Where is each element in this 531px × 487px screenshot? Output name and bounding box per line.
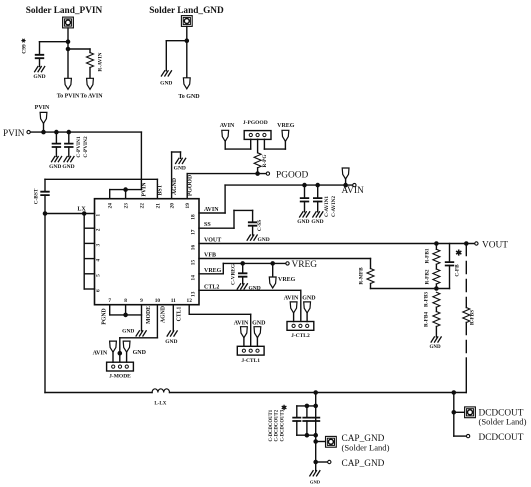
junction C-VREG [241,262,244,265]
junction CAP_GND terminal [314,460,317,463]
terminal circle PVIN [27,130,30,133]
connector J-CTL1 [237,346,264,355]
capacitor C-SS [249,222,257,225]
svg-text:AGND: AGND [172,178,178,195]
wire VREG arrow stub [272,263,274,277]
wire C-PVIN1 top [55,132,57,144]
capacitor C-AVIN1 [301,198,309,201]
wire PGND bus [110,314,142,316]
svg-text:PVIN: PVIN [3,128,25,138]
svg-text:C99 ✱: C99 ✱ [21,38,28,54]
svg-text:C-SS: C-SS [257,220,263,232]
svg-text:GND: GND [311,219,323,225]
svg-text:AGND: AGND [161,306,167,323]
junction PVIN arrow/rail [42,131,45,134]
port arrow AVIN J-MODE [110,341,117,352]
svg-text:AVIN: AVIN [234,320,249,326]
pin 15 wire VFB line [199,258,371,260]
capacitor C-DCDCOUT2 [303,418,310,421]
ground C-AVIN1 [300,212,310,217]
wire C-PVIN1 bottom [55,147,57,157]
ground solder-land-GND [161,71,171,76]
svg-text:GND: GND [133,350,147,356]
wire R-FBS top dashed [465,244,467,308]
svg-text:PGOOD: PGOOD [276,170,309,180]
wire GND arrow to J-CTL2 [306,313,308,322]
resistor R-FB2 [433,269,440,284]
wire C-PVIN2 top [68,132,70,144]
svg-text:VOUT: VOUT [204,238,221,244]
svg-text:R-FB3: R-FB3 [424,292,430,307]
svg-text:3: 3 [96,243,102,246]
pin 19 stub PGOOD up [186,174,188,199]
resistor R-AVIN [87,53,94,68]
capacitor C-PVIN2 [65,144,73,147]
port arrow GND J-CTL1 [254,327,261,338]
connector J-MODE [107,362,134,371]
ground C-SS [247,235,257,240]
wire AVIN riser [224,185,226,213]
svg-text:R-FB4: R-FB4 [424,312,430,327]
pin 11 wire AGND down [172,305,174,331]
wire R-PG bottom [257,168,259,174]
wire to CAP_GND land [316,441,326,443]
svg-text:10: 10 [155,298,161,304]
svg-text:PVIN: PVIN [35,105,50,111]
svg-text:9: 9 [140,298,143,304]
port arrow To AVIN [87,78,94,89]
port arrow AVIN J-CTL1 [241,327,248,338]
svg-text:18: 18 [190,214,196,220]
capacitor C-FB [446,262,454,265]
ground C-PVIN2 [64,157,74,162]
svg-text:DCDCOUT: DCDCOUT [479,433,524,443]
pin 16 wire VOUT line [199,243,475,245]
svg-text:R-FBS: R-FBS [470,310,476,325]
junction cap top bus 3 [314,404,317,407]
wire left pin bus [83,214,85,290]
pin 10 wire MODE down [156,305,158,338]
svg-text:GND: GND [302,295,316,301]
svg-text:R-PG: R-PG [262,155,268,168]
pin 4 stub [84,258,94,260]
solder land CAP_GND symbol [326,436,337,447]
wire AGND to ground [180,152,182,158]
wire VREG line [223,262,285,264]
svg-text:To PVIN: To PVIN [57,93,80,99]
ground R-FB4 [431,337,441,342]
svg-text:CTL1: CTL1 [177,306,183,321]
svg-text:VREG: VREG [292,260,318,270]
junction C-AVIN2 [316,184,319,187]
port arrow VREG J-PGOOD [282,130,289,141]
wire C-DCDCOUT2 top [306,406,308,418]
svg-text:J-CTL1: J-CTL1 [241,358,260,364]
svg-text:14: 14 [190,275,196,281]
terminal circle CAP_GND [328,460,331,463]
wire GND branch down [165,41,167,71]
svg-text:GND: GND [165,339,177,345]
connector J-PGOOD [244,131,271,140]
wire R-FBS to rail [465,358,467,393]
svg-text:BST: BST [158,184,164,195]
wire R-FB1 top [435,244,437,250]
svg-text:To AVIN: To AVIN [80,93,103,99]
junction output caps [314,391,317,394]
wire C99 bottom [39,58,41,66]
junction R-PG/PGOOD [256,172,259,175]
terminal circle DCDCOUT [466,434,469,437]
wire CTL2 to J-CTL2 [300,290,302,321]
pin 6 stub [84,288,94,290]
pin 21 stub BST [156,179,158,198]
capacitor C-VREG [239,273,247,276]
wire VFB to R-MFB [370,259,372,269]
svg-text:8: 8 [124,298,127,304]
svg-text:GND: GND [252,320,266,326]
terminal circle PGOOD [266,172,269,175]
svg-text:2: 2 [96,228,102,231]
wire CTL1 to J-CTL1 [250,314,252,346]
wire VREG riser [222,263,224,273]
wire C-PVIN2 bottom [68,147,70,157]
svg-text:11: 11 [171,298,176,304]
wire to DCDCOUT land [454,411,465,413]
svg-text:L-LX: L-LX [154,402,166,407]
terminal circle AVIN [353,183,356,186]
wire output cap main down [315,393,317,471]
resistor R-MFB [367,269,374,284]
wire CTL1 horizontal [189,313,251,315]
wire AVIN arrow down [224,141,226,149]
wire C-AVIN2 bottom [317,202,319,212]
svg-text:GND: GND [174,165,186,171]
pin 14 wire VREG [199,273,223,275]
wire FB node [371,288,450,290]
wire AVIN arrow to J-CTL1 [243,338,245,347]
wire to R-AVIN [68,48,90,50]
svg-text:C-DCDCOUT1: C-DCDCOUT1 [269,409,274,441]
junction C-PVIN2 [67,131,70,134]
wire pin3 up [263,139,265,149]
wire C-AVIN2 top [317,185,319,198]
wire LX down to inductor rail [44,214,46,393]
svg-text:R-MFB: R-MFB [358,267,364,285]
svg-text:AVIN: AVIN [93,351,108,357]
wire C-VREG top [242,263,244,273]
connector J-CTL2 [287,322,314,331]
capacitor C-BST [41,192,49,195]
resistor R-PG [254,153,261,168]
wire C-DCDCOUT2 bottom [306,421,308,435]
wire C-DCDCOUT1 bottom [296,421,298,435]
op-amp U1 IC body [95,199,200,305]
svg-text:GND: GND [429,345,441,350]
pin 9 wire to ground [141,305,143,331]
pin 5 stub [84,273,94,275]
svg-text:C-PVIN1: C-PVIN1 [76,136,82,158]
junction R-FBS/VOUT [465,242,468,245]
svg-text:R-FB1: R-FB1 [425,248,431,263]
wire DCDCOUT down [453,393,455,437]
svg-text:CAP_GND: CAP_GND [342,459,385,469]
ground C99 [35,67,45,72]
svg-text:24: 24 [108,203,114,209]
capacitor C-AVIN2 [314,198,322,201]
wire AVIN to pin1 [225,148,251,150]
wire C-BST top [44,179,46,191]
wire pin1 up [250,139,252,149]
port arrow AVIN input [342,168,349,179]
junction solder-GND [185,39,188,42]
junction LX bus [83,212,86,215]
svg-text:6: 6 [96,289,102,292]
svg-text:C-DCDCOUT2: C-DCDCOUT2 [275,409,280,441]
svg-text:AVIN: AVIN [284,295,299,301]
junction pin23 bus [124,188,127,191]
junction cap top bus 2 [305,404,308,407]
svg-text:AVIN: AVIN [342,186,364,196]
wire R-FB2 bottom [435,284,437,289]
junction VREG arrow [271,262,274,265]
wire R-MFB bottom [370,284,372,289]
svg-text:GND: GND [310,479,321,484]
pin 18 wire AVIN [199,212,225,214]
port arrow AVIN J-PGOOD [222,130,229,141]
wire to DCDCOUT terminal [454,435,466,437]
pin 12 stub down [188,305,190,315]
svg-text:13: 13 [190,291,196,297]
junction cap bottom bus 3 [314,434,317,437]
pin 24 stub [109,190,111,199]
wire C-SS bottom [252,226,254,235]
wire rail LX side [45,392,152,394]
wire MODE to J-MODE [120,337,158,339]
wire C-BST bottom [44,195,46,213]
wire to C99 [40,41,69,43]
wire C-AVIN1 top [304,185,306,198]
svg-text:C-FB: C-FB [455,264,461,277]
pin 20 stub AGND up [171,152,173,199]
svg-text:17: 17 [190,229,196,235]
svg-text:✱: ✱ [455,249,462,258]
wire SS riser [233,210,235,228]
svg-text:AVIN: AVIN [204,207,219,213]
svg-text:PGND: PGND [102,308,108,324]
svg-text:19: 19 [185,203,191,209]
wire C-AVIN1 bottom [304,202,306,212]
wire R-FB3/R-FB4 [435,307,437,311]
svg-text:GND: GND [297,219,309,225]
terminal circle VOUT [475,242,478,245]
wire R-PG top [257,139,259,153]
svg-text:AVIN: AVIN [220,123,235,129]
svg-text:PGOOD: PGOOD [188,175,194,196]
svg-text:VOUT: VOUT [482,240,508,250]
wire PVIN riser to pin 22 [140,132,142,190]
wire LX to pin 1 [45,213,95,215]
inductor L-LX [152,389,169,393]
wire R-FB4 bottom [435,327,437,337]
junction R-FB1/VOUT [435,242,438,245]
ground C-PVIN1 [52,157,62,162]
resistor R-FB4 [433,312,440,327]
svg-text:7: 7 [108,298,111,304]
ground AGND bottom [167,331,177,336]
ground PGND [136,331,146,336]
wire C-DCDCOUT1 top [296,406,298,418]
svg-text:C-AVIN2: C-AVIN2 [331,196,337,217]
terminal circle VREG [286,262,289,265]
svg-text:C-PVIN2: C-PVIN2 [83,136,89,158]
svg-text:15: 15 [190,260,196,266]
wire rail VOUT side [170,392,467,394]
wire J-MODE center riser [119,338,121,362]
wire cap bottom bus [297,434,316,436]
junction LX/C-BST [43,212,46,215]
wire C-FB top [449,244,451,263]
svg-text:J-MODE: J-MODE [109,374,131,380]
capacitor C-DCDCOUT1 [293,418,300,421]
svg-text:✱: ✱ [281,404,287,412]
junction solder-PVIN/C99 [66,40,69,43]
svg-text:VFB: VFB [204,253,216,259]
junction cap bottom bus 2 [305,434,308,437]
svg-text:GND: GND [122,328,134,334]
wire C-VREG bottom [242,277,244,284]
svg-text:GND: GND [49,164,61,170]
wire solder-land-PVIN down [67,28,69,78]
svg-text:4: 4 [96,259,102,262]
wire BST line [45,178,157,180]
pin 2 stub [84,227,94,229]
svg-text:R-AVIN: R-AVIN [98,52,104,71]
wire VREG to pin3 [264,148,285,150]
svg-text:GND: GND [249,285,261,291]
svg-text:J-CTL2: J-CTL2 [291,333,310,339]
solder land GND symbol [181,16,192,27]
pin 13 wire CTL2 [199,289,301,291]
pin 3 stub [84,242,94,244]
port arrow VREG out [269,277,276,288]
wire AVIN arrow to J-MODE [112,352,114,362]
svg-text:GND: GND [258,237,270,243]
junction C-AVIN1 [303,184,306,187]
wire AVIN arrow to J-CTL2 [293,313,295,322]
svg-text:To GND: To GND [178,94,200,100]
svg-text:GND: GND [33,74,45,80]
wire GND arrow to J-CTL1 [256,338,258,347]
capacitor C-PVIN1 [53,144,61,147]
wire C99 top [39,42,41,55]
svg-text:C-DCDCOUT3: C-DCDCOUT3 [280,409,285,441]
port arrow To PVIN [65,78,72,89]
wire SS to C-SS [234,209,253,211]
svg-text:VREG: VREG [278,277,296,283]
wire top bus pins 24-23-22 [110,189,142,191]
pin 17 wire SS [199,227,234,229]
wire C-FB bottom [449,266,451,289]
port arrow PVIN input [40,112,47,123]
svg-text:CTL2: CTL2 [204,284,219,290]
svg-text:MODE: MODE [146,306,152,324]
capacitor C-DCDCOUT3 [312,418,319,421]
resistor R-FB3 [433,292,440,307]
svg-text:Solder Land_PVIN: Solder Land_PVIN [26,6,103,16]
junction solder-PVIN/R-AVIN [66,47,69,50]
capacitor C99 [36,55,44,58]
wire AVIN rail [225,184,352,186]
wire R-FB1/R-FB2 [435,264,437,269]
junction C-PVIN1 [55,131,58,134]
svg-text:5: 5 [96,274,102,277]
solder land DCDCOUT symbol [465,407,476,418]
svg-text:(Solder Land): (Solder Land) [479,416,527,426]
svg-text:C-VREG: C-VREG [231,264,237,285]
junction DCDCOUT land [452,411,455,414]
svg-text:12: 12 [187,298,193,304]
wire AGND jog [172,151,181,153]
wire PVIN arrow stub [43,123,45,132]
wire R-AVIN top [89,49,91,53]
wire cap top bus [297,405,316,407]
wire AVIN arrow stub [345,179,347,185]
junction CAP_GND land [314,440,317,443]
ground C-AVIN2 [313,212,323,217]
wire solder-land-GND down [186,27,188,78]
wire GND arrow to J-MODE [126,352,128,362]
svg-text:J-PGOOD: J-PGOOD [243,120,268,126]
ground C-VREG [237,284,247,289]
svg-text:R-FB2: R-FB2 [425,269,431,284]
svg-text:SS: SS [204,222,211,228]
pin 23 stub [125,190,127,199]
ground AGND top [176,158,186,163]
svg-text:C-BST: C-BST [33,188,39,204]
port arrow GND J-CTL2 [304,302,311,313]
svg-text:GND: GND [62,164,74,170]
svg-text:GND: GND [160,81,172,87]
wire R-AVIN bottom [89,68,91,79]
svg-text:C-AVIN1: C-AVIN1 [324,196,330,217]
solder land PVIN symbol [63,17,74,28]
svg-text:22: 22 [139,203,145,209]
pin 7 stub down [109,305,111,315]
junction pin 8 [124,313,127,316]
svg-text:Solder Land_GND: Solder Land_GND [149,6,224,16]
pin 8 stub down [125,305,127,315]
ground output caps [310,471,320,476]
wire PGOOD line [187,173,266,175]
wire VREG arrow down [284,141,286,149]
wire PVIN rail [31,131,142,133]
svg-text:(Solder Land): (Solder Land) [342,443,390,453]
junction DCDCOUT [452,391,455,394]
resistor R-FBS [463,308,470,323]
port arrow AVIN J-CTL2 [290,302,297,313]
junction AVIN arrow [344,184,347,187]
resistor R-FB1 [433,249,440,264]
wire to CAP_GND terminal [316,461,328,463]
wire to GND branch [166,40,187,42]
wire C-SS top [252,210,254,222]
svg-text:1: 1 [96,214,102,217]
junction FB node [435,287,438,290]
svg-text:20: 20 [170,203,176,209]
svg-text:PVIN: PVIN [142,182,148,197]
svg-text:23: 23 [124,203,130,209]
svg-text:VREG: VREG [277,123,295,129]
